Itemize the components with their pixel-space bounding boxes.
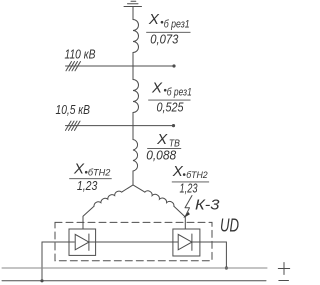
svg-text:110 кВ: 110 кВ: [65, 48, 96, 62]
diode VD2: [178, 234, 192, 249]
node dot right on plus bus: [225, 266, 228, 269]
hatch marks 10,5 кВ: [66, 121, 81, 130]
wire right winding to diode: [174, 206, 185, 229]
rectifier UD dashed enclosure: [55, 222, 212, 260]
node junction of split windings: [122, 185, 145, 192]
fault marker К-3 lightning arrow: [185, 196, 192, 216]
reactor X*б рез1 (0,073) coil: [133, 20, 139, 53]
svg-text:К-3: К-3: [195, 197, 220, 214]
svg-text:1,23: 1,23: [180, 181, 199, 196]
dc bus plus: [2, 267, 267, 269]
svg-text:0,088: 0,088: [146, 147, 177, 162]
svg-text:X: X: [148, 11, 160, 28]
wire left winding to diode: [83, 206, 94, 229]
svg-text:бТН2: бТН2: [186, 170, 208, 181]
node dot on 10,5 кВ bus: [172, 124, 175, 127]
svg-text:б рез1: б рез1: [167, 87, 192, 99]
bus 110 кВ: [66, 65, 175, 67]
wire from ground to reactor: [132, 7, 134, 20]
reactor X*б рез1 (0,525) coil: [133, 80, 139, 113]
label X ТВ / 0,088: [146, 131, 181, 162]
diode VD2 box: [173, 229, 200, 256]
node dot on 110 кВ bus: [172, 64, 175, 67]
svg-text:бТН2: бТН2: [88, 168, 111, 179]
svg-text:0,525: 0,525: [157, 100, 185, 115]
label X*бТН2 / 1,23 left: [69, 161, 112, 194]
transformer winding X*бТН2 right: [145, 191, 174, 206]
wire to winding junction: [132, 171, 134, 185]
ground: [124, 1, 142, 6]
diode VD1 box: [69, 229, 96, 255]
wire: [132, 53, 134, 80]
svg-text:1,23: 1,23: [77, 178, 98, 193]
svg-text:0,073: 0,073: [150, 31, 179, 46]
svg-text:X: X: [156, 131, 168, 148]
svg-text:X: X: [172, 163, 184, 180]
minus terminal symbol: [279, 280, 289, 282]
svg-text:X: X: [151, 79, 163, 96]
dc bus minus: [2, 280, 266, 282]
label X*б рез1 / 0,073: [146, 11, 190, 46]
hatch marks 110 кВ: [66, 62, 81, 71]
svg-text:б рез1: б рез1: [164, 18, 190, 30]
bus 10,5 кВ: [66, 125, 174, 127]
diode VD1: [75, 234, 89, 249]
svg-text:X: X: [73, 161, 85, 178]
plus terminal symbol: [278, 263, 289, 275]
label X*бТН2 / 1,23 right: [172, 163, 209, 196]
svg-text:10,5 кВ: 10,5 кВ: [56, 103, 91, 117]
wire dc link through diodes: [42, 242, 74, 281]
wire: [132, 113, 134, 140]
svg-text:UD: UD: [220, 216, 239, 236]
label X*б рез1 / 0,525: [148, 79, 192, 114]
node dot left on minus bus: [40, 279, 43, 282]
transformer winding X*бТН2 left: [94, 191, 122, 206]
reactor X ТВ (0,088) coil: [133, 140, 138, 172]
